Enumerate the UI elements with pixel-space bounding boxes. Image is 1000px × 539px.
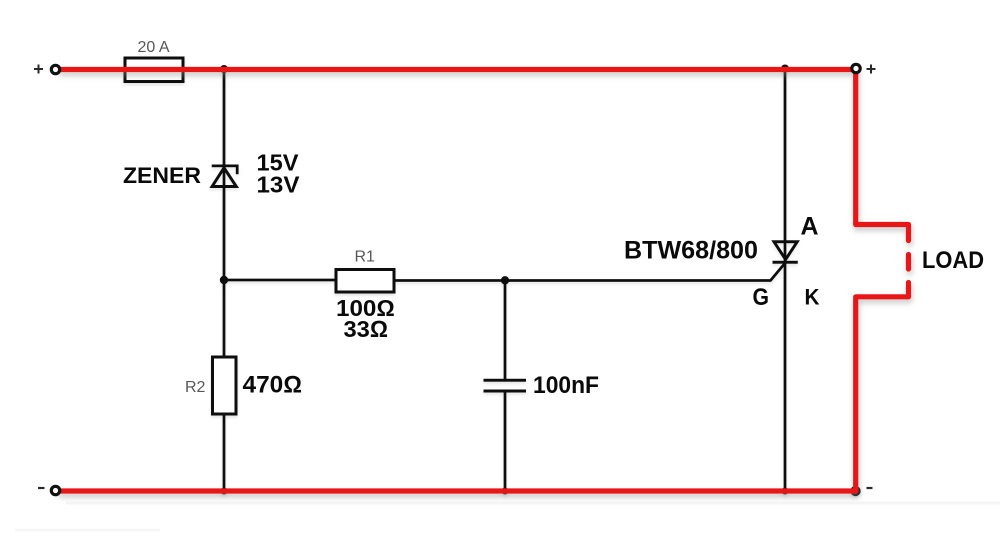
wire R2 to bottom rail [223,414,226,491]
svg-text:R1: R1 [355,249,376,266]
terminal top-left [51,65,59,73]
svg-text:K: K [805,285,821,310]
svg-text:R2: R2 [185,379,206,396]
capacitor C1 bottom plate [484,390,527,393]
wire bottom negative rail (red) [59,488,856,493]
svg-text:G: G [753,284,770,311]
zener D1 cathode bar [212,166,238,174]
wire thyristor anode [784,69,787,491]
svg-text:33Ω: 33Ω [344,316,389,342]
junction node zener / R1 [220,276,228,284]
wire node to R1 [224,279,336,282]
wire cap branch top [504,280,507,380]
wire R1 to gate [394,263,786,281]
svg-text:ZENER: ZENER [123,163,201,188]
wire load branch lower (red) [856,283,909,492]
svg-text:100nF: 100nF [533,372,599,399]
zener D1 triangle [212,168,236,187]
svg-text:13V: 13V [257,172,300,198]
junction node at top rail / thyristor [781,65,789,73]
junction node at top rail / zener [220,65,228,73]
junction node R2 / bottom rail [221,488,228,495]
wire cap to bottom rail [504,391,507,491]
wire load dash (red) [906,255,911,270]
label + left [34,65,43,74]
fuse F1 20A body [125,58,183,82]
resistor R2 body [213,357,237,414]
thyristor SCR cathode bar [773,261,798,264]
svg-text:LOAD: LOAD [922,247,984,274]
wire zener branch top [223,69,226,357]
resistor R1 body [336,270,394,293]
wire load branch upper (red) [856,70,909,241]
junction node capacitor / bottom rail [502,488,509,495]
svg-text:A: A [801,213,819,241]
terminal top-right [852,64,860,72]
svg-text:BTW68/800: BTW68/800 [624,237,758,265]
junction node R1 / capacitor [501,276,509,284]
label - left [38,487,45,489]
terminal bottom-left [51,486,59,494]
svg-text:470Ω: 470Ω [243,372,303,399]
junction node load / bottom rail [850,486,860,496]
wire top positive rail (red) [60,67,856,72]
junction node thyristor / bottom rail [782,488,789,495]
capacitor C1 top plate [484,379,527,382]
faint artifact line bottom-left [15,529,160,532]
thyristor SCR triangle [774,242,797,260]
label - right [867,487,873,489]
faint artifact line lower [66,502,1000,505]
svg-text:20 A: 20 A [138,39,170,56]
label + right [867,65,876,74]
